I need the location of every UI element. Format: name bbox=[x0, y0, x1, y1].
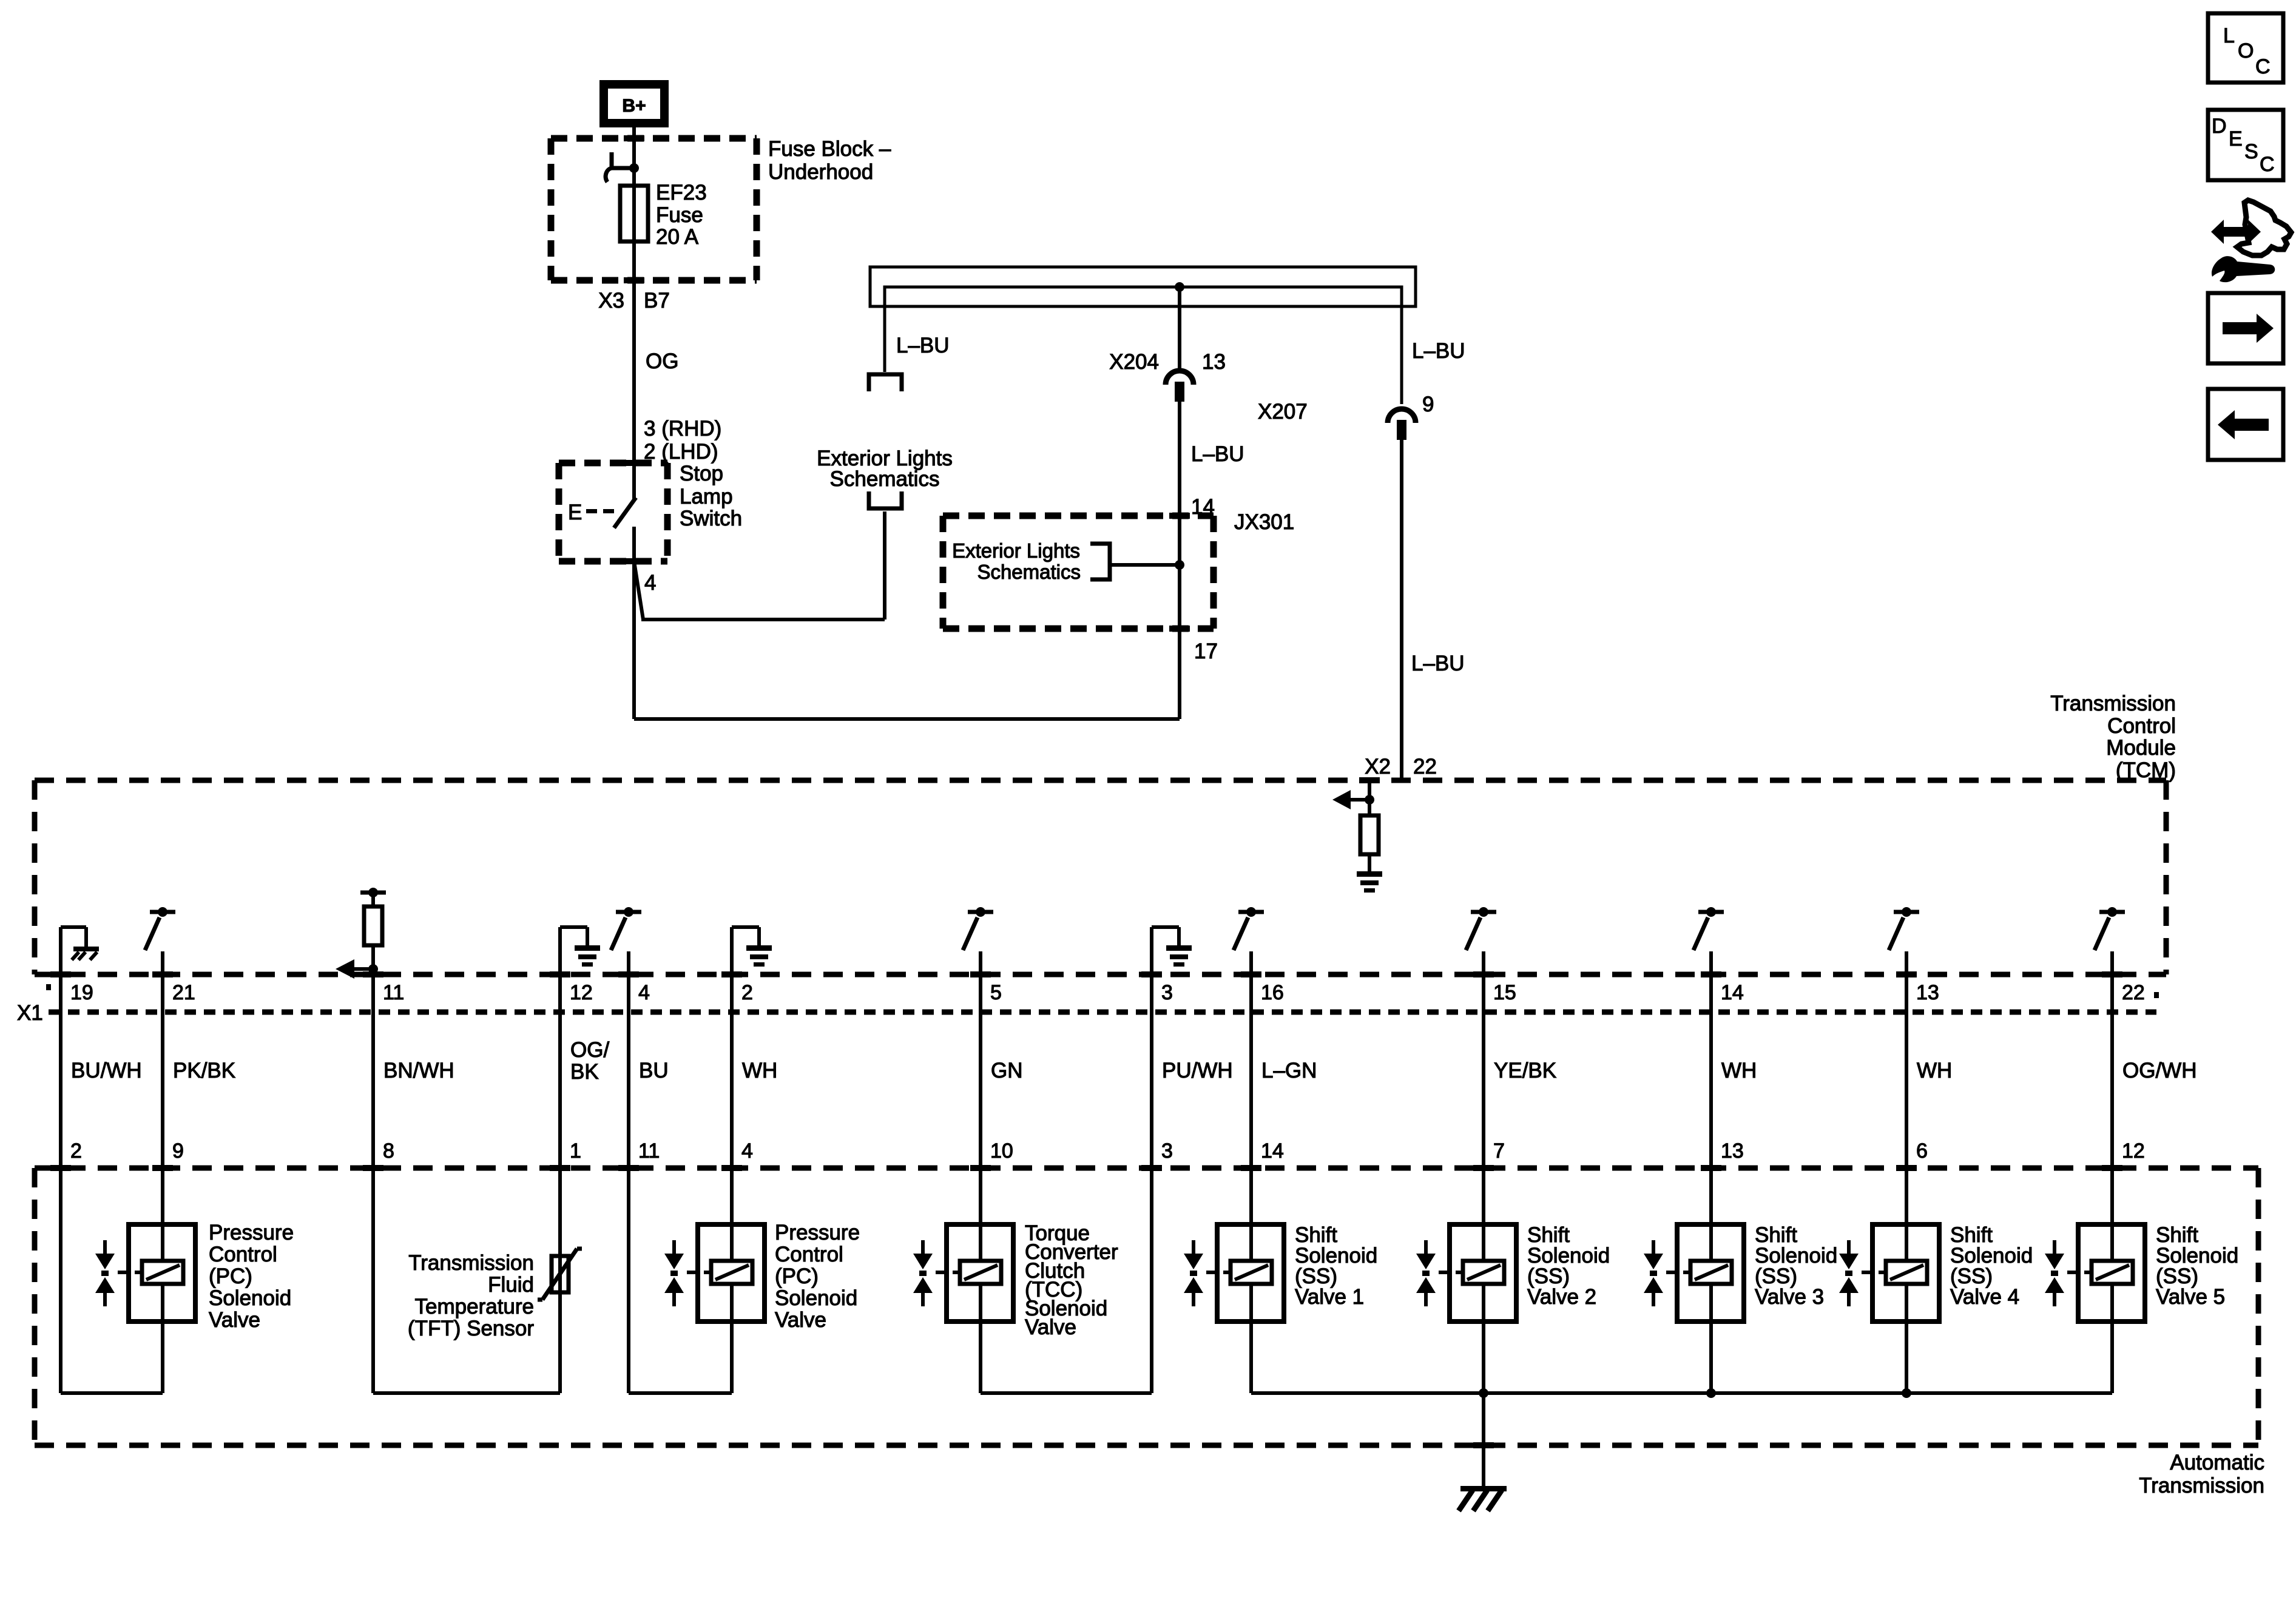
wire: X207 down to TCM X2 pin 22 bbox=[1400, 440, 1403, 780]
shift solenoid (SS) valve 1 bbox=[1217, 1224, 1284, 1322]
off-page bracket inside JX301 bbox=[1090, 544, 1110, 579]
Transmission Control Module (TCM) dashed box bbox=[35, 778, 2166, 783]
svg-text:(TFT) Sensor: (TFT) Sensor bbox=[408, 1317, 534, 1340]
svg-text:11: 11 bbox=[383, 981, 404, 1004]
svg-text:OG/WH: OG/WH bbox=[2122, 1059, 2196, 1082]
svg-text:L–BU: L–BU bbox=[1411, 652, 1465, 675]
svg-text:Exterior Lights: Exterior Lights bbox=[952, 539, 1080, 562]
resistor (TCM internal, X2-22) bbox=[1360, 815, 1379, 854]
svg-text:Transmission: Transmission bbox=[2139, 1474, 2264, 1497]
svg-text:3 (RHD): 3 (RHD) bbox=[644, 417, 721, 441]
svg-text:X1: X1 bbox=[17, 1001, 43, 1025]
stop lamp switch blade bbox=[614, 498, 636, 528]
svg-text:S: S bbox=[2244, 140, 2258, 163]
TCM internal chassis ground at pin 19 bbox=[59, 927, 62, 977]
wire bbox=[1482, 977, 1485, 1168]
svg-text:(PC): (PC) bbox=[209, 1264, 252, 1288]
svg-text:Transmission: Transmission bbox=[2050, 692, 2176, 715]
svg-text:WH: WH bbox=[1721, 1059, 1757, 1082]
svg-text:Pressure: Pressure bbox=[209, 1221, 294, 1244]
transmission pin 4 tick bbox=[721, 1165, 742, 1171]
battery feed terminal B+ bbox=[604, 84, 664, 123]
svg-text:4: 4 bbox=[638, 981, 650, 1004]
X1 connector row (short dash) bbox=[49, 1010, 2156, 1015]
junction on bus at X204 drop bbox=[1175, 282, 1184, 292]
transmission pin 8 tick bbox=[363, 1165, 383, 1171]
svg-text:13: 13 bbox=[1202, 350, 1226, 374]
svg-text:6: 6 bbox=[1916, 1139, 1928, 1163]
wire: SS return to case ground bbox=[1482, 1393, 1485, 1486]
svg-text:11: 11 bbox=[638, 1139, 660, 1163]
X1 pin 16 tick bbox=[1241, 971, 1261, 977]
svg-text:X204: X204 bbox=[1109, 350, 1159, 374]
TCM internal pull-up stub at X2-22: tick, arrow, resistor, ground bbox=[1359, 777, 1380, 783]
junction SS2 bbox=[1479, 1388, 1488, 1398]
svg-text:9: 9 bbox=[172, 1139, 184, 1163]
svg-text:15: 15 bbox=[1493, 981, 1516, 1004]
transmission pin 3 tick bbox=[1141, 1165, 1162, 1171]
TCM internal switch at pin 13 bbox=[1894, 910, 1919, 914]
svg-text:Valve 5: Valve 5 bbox=[2156, 1285, 2225, 1309]
svg-text:Valve 4: Valve 4 bbox=[1950, 1285, 2019, 1309]
in-line connector X204 bbox=[1166, 371, 1194, 385]
wire: shift solenoid 5 feed bbox=[2110, 1168, 2114, 1261]
icon: next arrow box bbox=[2208, 293, 2283, 363]
svg-text:4: 4 bbox=[644, 571, 656, 595]
wire: TCM 3 to TCC return bbox=[1150, 1168, 1153, 1393]
svg-text:Control: Control bbox=[2107, 714, 2176, 738]
svg-text:JX301: JX301 bbox=[1234, 510, 1294, 534]
valve symbol (SS valve 3) bbox=[1652, 1240, 1655, 1254]
svg-text:14: 14 bbox=[1721, 981, 1744, 1004]
wire: shift solenoid 2 feed bbox=[1482, 1168, 1485, 1261]
svg-text:Fluid: Fluid bbox=[488, 1273, 534, 1297]
wire: TFT bottom loop bbox=[373, 1391, 560, 1395]
svg-text:Lamp: Lamp bbox=[680, 485, 733, 508]
wire bbox=[627, 977, 630, 1168]
svg-text:B+: B+ bbox=[622, 96, 646, 116]
svg-text:Control: Control bbox=[775, 1243, 843, 1266]
shift solenoid (SS) valve 2 bbox=[1450, 1224, 1516, 1322]
svg-text:Underhood: Underhood bbox=[768, 160, 873, 184]
junction in JX301 bbox=[1175, 560, 1184, 570]
svg-text:2 (LHD): 2 (LHD) bbox=[644, 440, 718, 464]
icon: DESC box bbox=[2208, 110, 2283, 180]
TCM internal switch at pin 5 bbox=[968, 910, 993, 914]
valve symbol (SS valve 4) bbox=[1847, 1240, 1851, 1254]
valve symbol (SS valve 2) bbox=[1424, 1240, 1428, 1254]
svg-text:3: 3 bbox=[1161, 981, 1173, 1004]
svg-text:2: 2 bbox=[70, 1139, 82, 1163]
transmission pin 13 tick bbox=[1701, 1165, 1721, 1171]
valve symbol (PC solenoid 2) bbox=[672, 1240, 676, 1254]
svg-text:8: 8 bbox=[383, 1139, 394, 1163]
transmission pin 9 tick bbox=[152, 1165, 173, 1171]
splice pack bus inner feed line bbox=[885, 287, 1402, 404]
circuit breaker element hook at fuse feed bbox=[610, 152, 614, 168]
svg-text:Valve 2: Valve 2 bbox=[1527, 1285, 1596, 1309]
icon: LOC box bbox=[2208, 13, 2283, 83]
wire: TCM 19 to PC solenoid return bbox=[59, 1168, 62, 1393]
X1 pin 15 tick bbox=[1473, 971, 1494, 977]
TCM internal switch at pin 4 bbox=[616, 910, 641, 914]
valve symbol (PC solenoid 1) bbox=[103, 1240, 107, 1254]
X1 pin 2 tick bbox=[721, 971, 742, 977]
svg-text:9: 9 bbox=[1422, 393, 1434, 416]
svg-text:16: 16 bbox=[1261, 981, 1284, 1004]
svg-text:21: 21 bbox=[172, 981, 195, 1004]
wire: B+ down through fuse to stop lamp switch bbox=[632, 127, 636, 499]
X1 pin 11 tick bbox=[363, 971, 383, 977]
X1 pin 22 tick bbox=[2102, 971, 2122, 977]
fuse block underhood dashed box bbox=[551, 135, 757, 142]
TCM internal switch at pin 15 bbox=[1471, 910, 1496, 914]
shift solenoid (SS) valve 5 bbox=[2078, 1224, 2145, 1322]
X1 pin 21 tick bbox=[152, 971, 173, 977]
svg-text:Pressure: Pressure bbox=[775, 1221, 860, 1244]
wire bbox=[1709, 977, 1713, 1168]
svg-text:13: 13 bbox=[1721, 1139, 1744, 1163]
wire: main run from pin 4 down and right to JX301 pin 17 bbox=[632, 561, 636, 719]
torque converter clutch (TCC) solenoid valve bbox=[947, 1224, 1013, 1322]
wire bbox=[730, 977, 734, 1168]
wire bbox=[558, 977, 562, 1168]
svg-text:14: 14 bbox=[1261, 1139, 1284, 1163]
X1 pin 19 tick bbox=[50, 971, 71, 977]
wire: shift solenoid 4 feed bbox=[1905, 1168, 1908, 1261]
junction block JX301 dashed box bbox=[943, 513, 1214, 519]
off-page bracket (to exterior lights, top) bbox=[869, 374, 902, 391]
svg-text:Fuse Block –: Fuse Block – bbox=[768, 137, 891, 161]
valve symbol (SS valve 5) bbox=[2053, 1240, 2056, 1254]
svg-text:BU/WH: BU/WH bbox=[71, 1059, 142, 1082]
X1 pin 12 tick bbox=[550, 971, 570, 977]
junction SS3 bbox=[1706, 1388, 1716, 1398]
svg-text:20 A: 20 A bbox=[656, 225, 699, 249]
svg-text:Stop: Stop bbox=[680, 462, 723, 485]
X1 pin 13 tick bbox=[1896, 971, 1917, 977]
wire: bracket to JX301 bus bbox=[1110, 563, 1180, 567]
svg-text:12: 12 bbox=[2122, 1139, 2145, 1163]
stop lamp switch dashed box bbox=[559, 460, 667, 467]
off-page bracket (from exterior lights, bottom) bbox=[869, 491, 902, 508]
svg-text:22: 22 bbox=[2122, 981, 2145, 1004]
svg-text:Schematics: Schematics bbox=[977, 561, 1081, 583]
svg-text:YE/BK: YE/BK bbox=[1494, 1059, 1556, 1082]
TCM internal resistor with arrow at pin 11 bbox=[360, 891, 386, 895]
transmission pin 7 tick bbox=[1473, 1165, 1494, 1171]
svg-text:Valve: Valve bbox=[1025, 1315, 1076, 1339]
transmission fluid temperature (TFT) sensor thermistor bbox=[552, 1256, 569, 1292]
svg-text:Schematics: Schematics bbox=[830, 467, 940, 491]
wire: PC solenoid 2 bottom loop bbox=[629, 1391, 732, 1395]
transmission pin 2 tick bbox=[50, 1165, 71, 1171]
transmission pin 1 tick bbox=[550, 1165, 570, 1171]
svg-text:Transmission: Transmission bbox=[408, 1251, 534, 1275]
svg-text:L–BU: L–BU bbox=[1191, 442, 1244, 466]
wire bbox=[1905, 977, 1908, 1168]
svg-text:2: 2 bbox=[741, 981, 753, 1004]
svg-text:WH: WH bbox=[742, 1059, 777, 1082]
TCM internal switch at pin 14 bbox=[1698, 910, 1724, 914]
fuse EF23 20A bbox=[620, 186, 648, 241]
svg-text:E: E bbox=[2229, 127, 2243, 150]
transmission pin 14 tick bbox=[1241, 1165, 1261, 1171]
svg-text:Switch: Switch bbox=[680, 507, 742, 530]
X1 pin 14 tick bbox=[1701, 971, 1721, 977]
svg-text:BU: BU bbox=[639, 1059, 669, 1082]
svg-text:C: C bbox=[2260, 153, 2275, 176]
svg-text:E: E bbox=[568, 501, 582, 524]
wire bbox=[161, 977, 164, 1168]
X1 pin 3 tick bbox=[1141, 971, 1162, 977]
svg-text:GN: GN bbox=[991, 1059, 1023, 1082]
icon: back arrow box bbox=[2208, 389, 2283, 460]
Automatic Transmission dashed box bbox=[35, 1166, 2258, 1171]
pressure control (PC) solenoid valve 1 bbox=[129, 1224, 195, 1322]
valve symbol (SS valve 1) bbox=[1192, 1240, 1195, 1254]
wire: shift solenoid 3 feed bbox=[1709, 1168, 1713, 1261]
wire: horizontal to exterior lights schematics drop bbox=[641, 618, 885, 621]
svg-text:X3: X3 bbox=[598, 289, 624, 312]
svg-text:1: 1 bbox=[570, 1139, 581, 1163]
wire below switch to pin 4 bbox=[632, 527, 636, 561]
junction SS4 bbox=[1902, 1388, 1911, 1398]
svg-text:BN/WH: BN/WH bbox=[383, 1059, 454, 1082]
TCM internal ground at pin 3 bbox=[1150, 927, 1153, 977]
svg-text:B7: B7 bbox=[644, 289, 670, 312]
svg-text:Solenoid: Solenoid bbox=[209, 1286, 291, 1310]
svg-text:Valve 3: Valve 3 bbox=[1755, 1285, 1824, 1309]
shift solenoid (SS) valve 3 bbox=[1677, 1224, 1744, 1322]
svg-text:L–GN: L–GN bbox=[1261, 1059, 1317, 1082]
icon: adjust/repair hand with wrench bbox=[2211, 220, 2261, 244]
valve symbol (TCC solenoid) bbox=[921, 1240, 925, 1254]
svg-text:X2: X2 bbox=[1365, 755, 1391, 778]
svg-text:PU/WH: PU/WH bbox=[1162, 1059, 1233, 1082]
svg-text:(TCM): (TCM) bbox=[2116, 758, 2176, 782]
svg-text:Valve: Valve bbox=[775, 1308, 826, 1332]
wire bbox=[371, 977, 375, 1168]
wire: X204 to JX301 pin 14 bbox=[1178, 402, 1181, 513]
svg-text:17: 17 bbox=[1194, 640, 1218, 663]
wire: TCM 21 through PC solenoid bbox=[161, 1168, 164, 1261]
svg-text:L–BU: L–BU bbox=[896, 334, 950, 357]
svg-text:5: 5 bbox=[990, 981, 1002, 1004]
svg-text:D: D bbox=[2212, 115, 2227, 138]
case ground below transmission bbox=[1460, 1486, 1507, 1491]
wire: shift solenoid common return bus bbox=[1251, 1391, 2112, 1395]
wire: shift solenoid 1 feed bbox=[1249, 1168, 1253, 1261]
wire bbox=[59, 977, 62, 1168]
svg-text:L–BU: L–BU bbox=[1412, 339, 1465, 363]
wire bbox=[979, 977, 982, 1168]
svg-text:13: 13 bbox=[1916, 981, 1939, 1004]
svg-text:10: 10 bbox=[990, 1139, 1013, 1163]
svg-text:4: 4 bbox=[741, 1139, 753, 1163]
wire: TCM 4 to PC solenoid 2 return bbox=[627, 1168, 630, 1393]
TCM internal ground at pin 2 bbox=[730, 927, 734, 977]
wire bbox=[1150, 977, 1153, 1168]
svg-text:Valve 1: Valve 1 bbox=[1295, 1285, 1364, 1309]
svg-text:Automatic: Automatic bbox=[2170, 1451, 2264, 1474]
wire: TCM 5 through TCC solenoid bbox=[979, 1168, 982, 1261]
svg-text:7: 7 bbox=[1493, 1139, 1505, 1163]
transmission pin 12 tick bbox=[2102, 1165, 2122, 1171]
in-line connector X207 bbox=[1388, 409, 1416, 423]
ground (TCM internal, X2-22) bbox=[1357, 871, 1382, 877]
svg-text:WH: WH bbox=[1917, 1059, 1952, 1082]
svg-text:Control: Control bbox=[209, 1243, 277, 1266]
wire bbox=[2110, 977, 2114, 1168]
wire: bus drop to X204 bbox=[1178, 287, 1181, 368]
transmission pin 10 tick bbox=[970, 1165, 991, 1171]
wire: TCM 11 to TFT sensor bbox=[371, 1168, 375, 1393]
svg-text:X207: X207 bbox=[1258, 400, 1308, 424]
transmission pin 6 tick bbox=[1896, 1165, 1917, 1171]
TCM internal switch at pin 22 bbox=[2099, 910, 2125, 914]
svg-text:Fuse: Fuse bbox=[656, 203, 703, 227]
X1 pin 4 tick bbox=[618, 971, 639, 977]
wire: TCM 12 through TFT sensor bbox=[558, 1168, 562, 1393]
svg-text:OG/: OG/ bbox=[570, 1038, 609, 1062]
svg-text:BK: BK bbox=[570, 1060, 599, 1084]
svg-text:Module: Module bbox=[2106, 736, 2176, 760]
svg-text:12: 12 bbox=[570, 981, 593, 1004]
wire: through JX301 junction block bbox=[1178, 513, 1181, 629]
svg-text:L: L bbox=[2223, 24, 2235, 47]
TCM internal ground at pin 12 bbox=[558, 927, 562, 977]
wire bbox=[1249, 977, 1253, 1168]
wire: TCM 2 through PC solenoid 2 bbox=[730, 1168, 734, 1261]
shift solenoid (SS) valve 4 bbox=[1872, 1224, 1939, 1322]
svg-text:OG: OG bbox=[646, 349, 678, 373]
X1 pin 5 tick bbox=[970, 971, 991, 977]
wire: PC solenoid 1 bottom loop bbox=[61, 1391, 163, 1395]
transmission pin 11 tick bbox=[618, 1165, 639, 1171]
svg-text:PK/BK: PK/BK bbox=[173, 1059, 235, 1082]
svg-text:22: 22 bbox=[1413, 755, 1437, 778]
svg-text:(PC): (PC) bbox=[775, 1264, 819, 1288]
splice pack bus bar outer shell bbox=[870, 267, 1416, 306]
wire: TCC bottom loop bbox=[981, 1391, 1152, 1395]
wire: slant branch from pin 4 to exterior lights feed bbox=[634, 561, 643, 619]
svg-text:Valve: Valve bbox=[209, 1308, 260, 1332]
svg-text:3: 3 bbox=[1161, 1139, 1173, 1163]
svg-text:19: 19 bbox=[70, 981, 93, 1004]
junction node on B+ feed bbox=[629, 163, 639, 173]
TCM internal switch at pin 16 bbox=[1238, 910, 1264, 914]
svg-text:O: O bbox=[2238, 39, 2254, 62]
svg-text:Solenoid: Solenoid bbox=[775, 1286, 857, 1310]
svg-text:C: C bbox=[2255, 55, 2271, 78]
TCM internal switch at pin 21 bbox=[150, 910, 175, 914]
svg-text:Temperature: Temperature bbox=[415, 1295, 534, 1318]
pressure control (PC) solenoid valve 2 bbox=[698, 1224, 765, 1322]
svg-text:EF23: EF23 bbox=[656, 181, 707, 204]
